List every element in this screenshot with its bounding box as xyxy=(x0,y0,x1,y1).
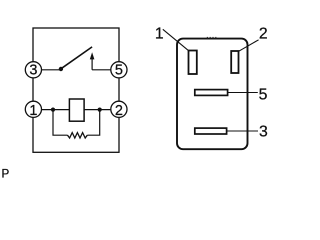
node junction left xyxy=(51,108,55,112)
coil L1 xyxy=(69,99,84,121)
relay body outline xyxy=(33,28,119,152)
svg-text:1: 1 xyxy=(29,103,37,119)
svg-text:P: P xyxy=(2,168,10,179)
svg-text:3: 3 xyxy=(259,124,268,141)
wire arrow to contact 5 xyxy=(92,69,111,71)
connector slot pin 1 xyxy=(189,51,197,75)
svg-text:2: 2 xyxy=(115,103,123,119)
leader line 5 xyxy=(228,92,258,94)
pin 2 terminal circle xyxy=(111,101,127,117)
leader line 3 xyxy=(227,130,258,132)
switch arrow xyxy=(91,57,93,70)
wire right drop xyxy=(87,110,99,136)
wire pin1 to coil xyxy=(42,109,70,111)
connector housing outline xyxy=(177,39,248,150)
leader line 2 xyxy=(239,40,259,52)
pin 1 terminal circle xyxy=(25,101,41,117)
svg-text:2: 2 xyxy=(259,25,268,42)
wire left drop xyxy=(53,110,68,136)
svg-text:5: 5 xyxy=(115,63,123,79)
pin 3 terminal circle xyxy=(25,62,41,78)
leader line 1 xyxy=(163,29,189,50)
node junction right xyxy=(98,108,102,112)
connector slot pin 2 xyxy=(231,51,238,73)
housing key marks xyxy=(207,37,208,38)
svg-text:1: 1 xyxy=(155,25,164,42)
svg-text:5: 5 xyxy=(259,86,268,103)
resistor R1 xyxy=(68,133,88,138)
wire coil to pin2 xyxy=(84,109,110,111)
switch blade xyxy=(61,47,92,69)
connector slot pin 5 xyxy=(195,90,228,96)
wire contact 3 to pivot xyxy=(42,69,62,71)
pin 5 terminal circle xyxy=(111,62,127,78)
svg-text:3: 3 xyxy=(29,63,37,79)
node pivot dot xyxy=(59,67,63,71)
connector slot pin 3 xyxy=(195,128,227,134)
